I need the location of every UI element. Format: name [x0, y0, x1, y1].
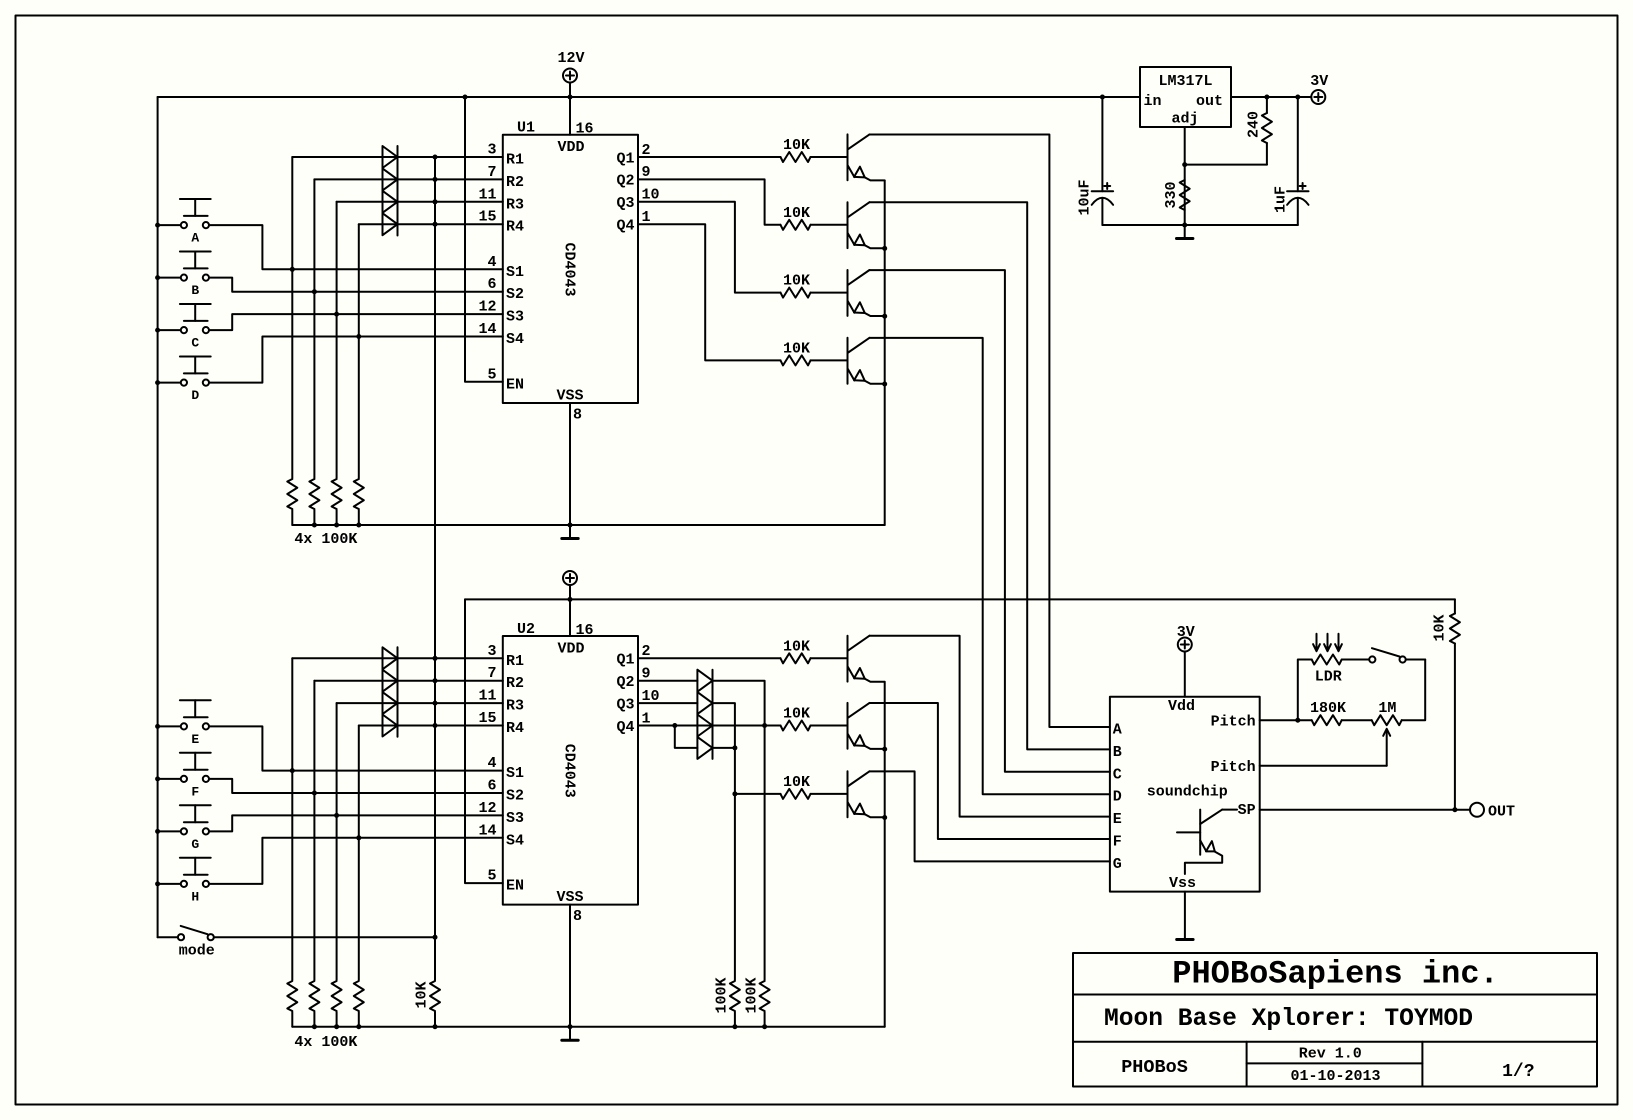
svg-text:D: D — [191, 388, 199, 403]
transistor Q4 (NPN) — [848, 338, 885, 384]
svg-text:Pitch: Pitch — [1211, 713, 1256, 730]
diode D7 — [383, 692, 398, 714]
resistor 10K base (lower 3) — [781, 774, 811, 799]
svg-text:LDR: LDR — [1315, 669, 1342, 686]
wire t3 base row — [735, 793, 781, 795]
svg-text:adj: adj — [1171, 111, 1198, 128]
svg-text:16: 16 — [576, 622, 594, 639]
junction bottom rail — [312, 1024, 317, 1029]
wire regulator ground rail — [1102, 224, 1297, 226]
junction left bus / button D — [155, 380, 160, 385]
diode D5 — [383, 647, 398, 669]
svg-text:A: A — [191, 231, 199, 246]
junction reset column / U2 R row — [433, 723, 438, 728]
svg-text:R4: R4 — [506, 720, 524, 737]
junction bottom rail — [356, 1024, 361, 1029]
wire base (lower 1) — [811, 657, 848, 659]
resistor 100K (diode pull-down b) — [743, 977, 769, 1026]
power flag 12V — [557, 50, 584, 97]
ground symbol (regulator) — [1177, 225, 1193, 239]
junction ground rail — [356, 523, 361, 528]
svg-text:VSS: VSS — [556, 388, 583, 405]
diode D9 — [697, 670, 712, 692]
wire U1 VDD pin 16 — [569, 97, 571, 135]
wire U1 EN pin 5 — [465, 97, 503, 382]
switch mode — [178, 926, 215, 960]
svg-text:5: 5 — [487, 366, 496, 383]
label 4x 100K (U2) — [294, 1034, 357, 1051]
junction S row / pull-down (F) — [312, 791, 317, 796]
junction R4 / reset column — [433, 222, 438, 227]
wire mode row — [158, 936, 435, 938]
svg-text:10K: 10K — [783, 638, 810, 655]
wire U2 supply rail — [465, 598, 1455, 600]
wire U1 VSS pin 8 — [569, 403, 571, 525]
pushbutton D — [180, 357, 211, 404]
svg-text:PHOBoSapiens inc.: PHOBoSapiens inc. — [1172, 956, 1498, 993]
junction left bus / button H — [155, 881, 160, 886]
svg-text:soundchip: soundchip — [1147, 784, 1228, 801]
wire 180K to 1M — [1342, 719, 1372, 721]
svg-text:Q3: Q3 — [616, 195, 634, 212]
wire button D to S4 — [158, 337, 503, 383]
svg-text:VSS: VSS — [556, 889, 583, 906]
junction reset column / mode — [433, 935, 438, 940]
wire U1 Q3 to base resistor — [638, 202, 781, 293]
resistor 100K #5 (U2 pull-down) — [287, 981, 297, 1027]
resistor 10K base (lower 2) — [781, 706, 811, 731]
wire emitter bus (top) — [884, 181, 886, 525]
svg-text:10K: 10K — [783, 205, 810, 222]
resistor 100K #8 (U2 pull-down) — [354, 981, 364, 1027]
transistor Q3 (NPN) — [848, 270, 885, 316]
wire Pitch1 — [1260, 719, 1312, 721]
wire base Q4 — [811, 359, 848, 361]
svg-text:VDD: VDD — [557, 641, 584, 658]
junction ground rail — [312, 523, 317, 528]
wire 12V rail — [158, 96, 1140, 98]
svg-text:S1: S1 — [506, 264, 524, 281]
svg-text:CD4043: CD4043 — [560, 242, 577, 296]
resistor 100K #6 (U2 pull-down) — [309, 981, 319, 1027]
wire base (lower 3) — [811, 793, 848, 795]
wire pull-down column 3 (U2) — [336, 703, 338, 980]
soundchip U3 — [1110, 697, 1260, 892]
svg-text:Q4: Q4 — [616, 218, 634, 235]
wire base Q2 — [811, 224, 848, 226]
junction emitter bus — [882, 382, 887, 387]
svg-text:out: out — [1196, 93, 1223, 110]
IC U2 CD4043 — [478, 621, 659, 925]
svg-text:4: 4 — [487, 755, 496, 772]
svg-text:1/?: 1/? — [1502, 1062, 1534, 1082]
wire button F to S row — [158, 779, 503, 793]
wire U1 R1 row — [292, 156, 503, 158]
svg-text:LM317L: LM317L — [1158, 73, 1212, 90]
wire Pitch2 to wiper — [1260, 765, 1387, 767]
ground symbol (bottom) — [562, 1027, 578, 1041]
junction Q4 / diode7 branch — [672, 723, 677, 728]
diode D1 — [383, 146, 398, 168]
svg-text:E: E — [191, 732, 199, 747]
junction Q3 column / t3 base — [732, 791, 737, 796]
resistor 10K base (lower 1) — [781, 638, 811, 663]
label 4x 100K (U1) — [294, 531, 357, 548]
wire bottom ground rail — [292, 1026, 884, 1028]
resistor 100K #7 (U2 pull-down) — [332, 981, 342, 1027]
svg-text:100K: 100K — [743, 977, 760, 1013]
wire collector lower 1 to soundchip E — [870, 636, 1110, 817]
wire U2 Q1 to base resistor — [638, 657, 781, 659]
junction SP / 10K — [1452, 807, 1457, 812]
wire U1 R4 row — [359, 223, 503, 225]
svg-text:U1: U1 — [517, 120, 535, 137]
svg-text:Q3: Q3 — [616, 696, 634, 713]
svg-text:100K: 100K — [713, 977, 730, 1013]
wire button H to S row — [158, 838, 503, 884]
junction left bus / button B — [155, 275, 160, 280]
wire pull-down column 1 (U1) — [291, 157, 293, 478]
svg-text:S3: S3 — [506, 810, 524, 827]
diode D2 — [383, 168, 398, 190]
junction S row / pull-down (E) — [290, 768, 295, 773]
wire collector Q2 to soundchip B — [870, 202, 1110, 749]
junction emitter bus lower — [882, 747, 887, 752]
svg-text:S3: S3 — [506, 309, 524, 326]
svg-text:EN: EN — [506, 878, 524, 895]
title block — [1073, 953, 1597, 1087]
svg-text:S1: S1 — [506, 765, 524, 782]
wire pull-down column 1 (U2) — [291, 658, 293, 980]
wire button G to S row — [158, 815, 503, 831]
resistor 100K #1 (U1 pull-down) — [287, 479, 297, 525]
svg-text:D: D — [1113, 789, 1122, 806]
resistor 10K base Q1 (top) — [781, 137, 811, 162]
junction left bus / button G — [155, 829, 160, 834]
resistor 10K (mode pull-down) — [414, 981, 441, 1027]
junction 12V rail / U1 VDD — [568, 95, 573, 100]
svg-text:B: B — [1113, 744, 1122, 761]
svg-text:G: G — [191, 837, 199, 852]
connector OUT — [1470, 803, 1515, 821]
svg-text:CD4043: CD4043 — [560, 744, 577, 798]
wire diode6 out — [713, 703, 735, 980]
diode D10 — [697, 692, 712, 714]
junction 12V rail / C 10uF — [1100, 95, 1105, 100]
diode D6 — [383, 670, 398, 692]
wire U1 R3 row — [337, 201, 503, 203]
svg-text:Q2: Q2 — [616, 674, 634, 691]
wire pull-down column 3 (U1) — [336, 202, 338, 478]
wire pull-down column 2 (U2) — [313, 681, 315, 980]
wire U2 Q2 to diode — [638, 680, 697, 682]
junction S4 / pull-down 4 — [356, 334, 361, 339]
pushbutton E — [180, 700, 211, 747]
junction R1 / reset column — [433, 155, 438, 160]
svg-text:10K: 10K — [1432, 614, 1449, 641]
svg-text:11: 11 — [478, 186, 496, 203]
svg-text:C: C — [191, 336, 199, 351]
svg-text:R3: R3 — [506, 196, 524, 213]
svg-text:14: 14 — [478, 822, 496, 839]
junction S1 / pull-down 1 — [290, 267, 295, 272]
wire U2 VDD pin 16 — [569, 599, 571, 636]
power flag (U2 supply) — [563, 571, 577, 599]
svg-text:PHOBoS: PHOBoS — [1121, 1057, 1188, 1078]
diode D12 — [697, 737, 712, 759]
svg-text:Q4: Q4 — [616, 719, 634, 736]
wire left button bus — [157, 97, 159, 937]
svg-text:H: H — [191, 889, 199, 904]
wire U2 VSS pin 8 — [569, 905, 571, 1027]
transistor Q2 (NPN) — [848, 202, 885, 248]
resistor 330 — [1163, 180, 1190, 210]
transistor (lower 3) NPN — [848, 771, 885, 817]
pushbutton F — [180, 753, 211, 800]
svg-text:8: 8 — [573, 908, 582, 925]
wire LDR branch up — [1298, 660, 1312, 721]
junction left bus / button F — [155, 776, 160, 781]
wire base Q3 — [811, 292, 848, 294]
svg-text:Vss: Vss — [1169, 875, 1196, 892]
resistor 100K (diode pull-down a) — [713, 977, 740, 1026]
junction left bus / button C — [155, 328, 160, 333]
junction 12V rail / EN column — [463, 95, 468, 100]
svg-text:SP: SP — [1238, 802, 1256, 819]
junction bottom rail / U2 VSS — [568, 1024, 573, 1029]
wire pull-down column 2 (U1) — [313, 179, 315, 478]
ground symbol (U1) — [562, 525, 578, 539]
svg-text:S4: S4 — [506, 832, 524, 849]
svg-text:1uF: 1uF — [1273, 186, 1290, 213]
power flag 3V (regulator) — [1310, 73, 1328, 104]
wire emitter bus (lower) — [884, 682, 886, 1027]
svg-text:240: 240 — [1246, 111, 1263, 138]
wire U1 R2 row — [314, 178, 502, 180]
svg-text:10K: 10K — [783, 340, 810, 357]
svg-text:Pitch: Pitch — [1211, 759, 1256, 776]
wire U1 Q4 to base resistor — [638, 224, 781, 360]
svg-text:R3: R3 — [506, 698, 524, 715]
svg-text:7: 7 — [487, 665, 496, 682]
svg-text:16: 16 — [576, 121, 594, 138]
junction bottom rail — [334, 1024, 339, 1029]
wire collector Q1 to soundchip A — [870, 135, 1110, 728]
resistor 100K #2 (U1 pull-down) — [309, 479, 319, 525]
svg-text:S2: S2 — [506, 286, 524, 303]
wire button B to S2 — [158, 278, 503, 292]
diode D4 — [383, 213, 398, 235]
svg-text:C: C — [1113, 766, 1122, 783]
resistor 180K — [1310, 700, 1346, 725]
svg-text:10K: 10K — [783, 706, 810, 723]
svg-text:6: 6 — [487, 778, 496, 795]
junction out / C 1uF — [1295, 95, 1300, 100]
wire diode8 anode branch — [675, 726, 698, 748]
wire LM317 out — [1231, 96, 1311, 98]
wire base (lower 2) — [811, 725, 848, 727]
resistor 10K base Q4 (top) — [781, 340, 811, 365]
svg-text:S4: S4 — [506, 331, 524, 348]
transistor Q1 (NPN) — [848, 134, 885, 180]
switch (LDR select) — [1369, 648, 1405, 662]
pushbutton G — [180, 805, 211, 852]
svg-text:mode: mode — [179, 943, 215, 960]
wire U2 R1 row — [292, 657, 503, 659]
svg-text:1M: 1M — [1378, 700, 1396, 717]
wire collector lower 2 to soundchip F — [870, 703, 1110, 839]
diode D11 — [697, 715, 712, 737]
svg-text:VDD: VDD — [557, 139, 584, 156]
wire adj node — [1185, 127, 1267, 225]
svg-text:R2: R2 — [506, 174, 524, 191]
photoresistor LDR — [1312, 634, 1342, 686]
junction regulator ground — [1182, 223, 1187, 228]
svg-text:01-10-2013: 01-10-2013 — [1290, 1068, 1380, 1085]
pushbutton A — [180, 199, 211, 246]
junction left bus / button A — [155, 223, 160, 228]
svg-text:10K: 10K — [783, 273, 810, 290]
diode array cathode bar (U1) — [397, 146, 399, 236]
resistor 100K #4 (U1 pull-down) — [354, 479, 364, 525]
svg-text:15: 15 — [478, 209, 496, 226]
diode D8 — [383, 715, 398, 737]
svg-text:G: G — [1113, 856, 1122, 873]
wire button C to S3 — [158, 314, 503, 330]
junction adj / R330 — [1182, 162, 1187, 167]
svg-text:12: 12 — [478, 800, 496, 817]
svg-text:B: B — [191, 283, 199, 298]
junction emitter bus lower — [882, 815, 887, 820]
wire reset/mode column — [434, 157, 436, 980]
transistor (lower 1) NPN — [848, 636, 885, 682]
wire collector Q3 to soundchip C — [870, 270, 1110, 772]
junction bottom rail — [433, 1024, 438, 1029]
wire U1 Q2 to base resistor — [638, 179, 781, 224]
svg-text:10uF: 10uF — [1077, 179, 1094, 215]
svg-text:A: A — [1113, 722, 1122, 739]
svg-text:6: 6 — [487, 276, 496, 293]
resistor 10K base Q3 (top) — [781, 273, 811, 298]
wire 1M right — [1402, 660, 1426, 721]
junction R2 / reset column — [433, 177, 438, 182]
svg-text:in: in — [1144, 93, 1162, 110]
wire diode5 out — [713, 681, 765, 980]
svg-text:S2: S2 — [506, 788, 524, 805]
wire soundchip Vss — [1184, 892, 1186, 939]
wire button E to S row — [158, 726, 503, 770]
junction U2 rail / VDD — [568, 597, 573, 602]
junction S2 / pull-down 2 — [312, 289, 317, 294]
wire collector lower 3 to soundchip G — [870, 771, 1110, 861]
junction emitter bus — [882, 246, 887, 251]
pushbutton H — [180, 858, 211, 905]
svg-text:Vdd: Vdd — [1168, 698, 1195, 715]
svg-text:3V: 3V — [1177, 624, 1195, 641]
diode D3 — [383, 191, 398, 213]
power flag 3V (soundchip) — [1177, 624, 1195, 697]
capacitor 10uF — [1077, 97, 1113, 225]
svg-text:Q1: Q1 — [616, 150, 634, 167]
svg-text:3: 3 — [487, 142, 496, 159]
wire U2 R3 row — [337, 702, 503, 704]
wire U1 ground rail — [292, 524, 884, 526]
junction left bus / button E — [155, 724, 160, 729]
junction bottom rail / 100K b — [762, 1024, 767, 1029]
svg-text:12V: 12V — [557, 50, 584, 67]
resistor 10K base Q2 (top) — [781, 205, 811, 230]
junction ground rail — [334, 523, 339, 528]
svg-text:R1: R1 — [506, 152, 524, 169]
svg-text:R4: R4 — [506, 219, 524, 236]
svg-text:R2: R2 — [506, 675, 524, 692]
wire collector Q4 to soundchip D — [870, 338, 1110, 794]
junction S row / pull-down (G) — [334, 813, 339, 818]
svg-text:330: 330 — [1163, 181, 1180, 208]
svg-text:14: 14 — [478, 321, 496, 338]
wire U1 Q1 to base resistor — [638, 156, 781, 158]
wire diode8 out — [713, 747, 735, 749]
svg-text:180K: 180K — [1310, 700, 1346, 717]
svg-text:E: E — [1113, 811, 1122, 828]
wire U2 R2 row — [314, 680, 502, 682]
wire button A to S1 — [158, 225, 503, 269]
junction diode8 / Q3 column — [732, 745, 737, 750]
transistor (lower 2) NPN — [848, 703, 885, 749]
svg-text:4x 100K: 4x 100K — [294, 531, 357, 548]
svg-text:EN: EN — [506, 376, 524, 393]
junction R3 / reset column — [433, 199, 438, 204]
svg-text:Rev 1.0: Rev 1.0 — [1299, 1046, 1362, 1063]
junction Q4 row / diode5 column — [762, 723, 767, 728]
svg-text:F: F — [1113, 834, 1122, 851]
svg-text:3V: 3V — [1310, 73, 1328, 90]
svg-text:OUT: OUT — [1488, 803, 1515, 820]
svg-text:4: 4 — [487, 254, 496, 271]
junction reset column / U2 R row — [433, 678, 438, 683]
diode array cathode bar (lower) — [712, 670, 714, 759]
pushbutton C — [180, 304, 211, 351]
svg-text:Q2: Q2 — [616, 173, 634, 190]
svg-text:3: 3 — [487, 643, 496, 660]
wire U2 R4 row — [359, 725, 503, 727]
junction emitter bus — [882, 314, 887, 319]
svg-text:15: 15 — [478, 710, 496, 727]
svg-text:10K: 10K — [783, 137, 810, 154]
svg-text:Q1: Q1 — [616, 652, 634, 669]
pushbutton B — [180, 252, 211, 299]
junction Pitch1 / LDR branch — [1295, 718, 1300, 723]
svg-text:F: F — [191, 784, 199, 799]
resistor 100K #3 (U1 pull-down) — [332, 479, 342, 525]
junction ground rail / U1 VSS — [568, 523, 573, 528]
wire base Q1 — [811, 156, 848, 158]
wire LDR to switch — [1342, 659, 1369, 661]
resistor 10K (output) — [1432, 599, 1460, 809]
IC U1 CD4043 — [478, 120, 659, 424]
wire pull-down column 4 (U2) — [358, 726, 360, 981]
voltage regulator LM317L — [1140, 67, 1231, 128]
resistor 240 — [1246, 97, 1272, 165]
wire SP output — [1260, 809, 1470, 811]
wire switch to 1M node — [1406, 659, 1425, 661]
capacitor 1uF — [1273, 97, 1309, 225]
diode array cathode bar (U2) — [397, 647, 399, 737]
wire U2 EN pin 5 — [465, 599, 503, 883]
junction out / R240 — [1264, 95, 1269, 100]
potentiometer 1M — [1372, 700, 1402, 766]
svg-text:5: 5 — [487, 868, 496, 885]
